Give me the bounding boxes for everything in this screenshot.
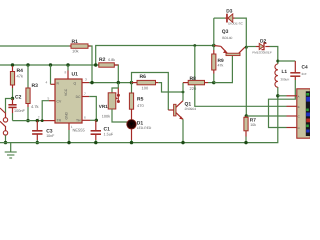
svg-text:2: 2: [38, 115, 40, 119]
button pin circle 1: [3, 118, 7, 122]
wire pin C: [246, 115, 286, 117]
resistor R9: [212, 46, 216, 83]
svg-text:R2: R2: [99, 57, 106, 63]
wire VCC top rail-1b y=45.5: [96, 46, 214, 66]
transistor Q1 base bar: [174, 104, 176, 116]
U1 pin number 5: [48, 96, 50, 100]
wire C4 top: [278, 61, 296, 72]
wire VR1 bottom to D1 line: [112, 109, 132, 122]
label C1: [104, 126, 114, 136]
transistor Q1 collector: [176, 92, 183, 107]
label R4: [17, 68, 24, 79]
junction C3-TR: [36, 119, 39, 122]
wire rail-1b down to module pin B: [195, 46, 287, 107]
module pin stub A: [287, 95, 297, 97]
svg-text:Q3: Q3: [222, 29, 229, 35]
wire R2 right lead down to node B: [114, 65, 118, 83]
svg-text:10k: 10k: [250, 123, 256, 127]
label R9: [218, 58, 224, 68]
svg-text:C2: C2: [15, 94, 22, 100]
wire C4 bottom to pin D: [269, 80, 296, 128]
label D2: [252, 38, 272, 54]
button/connector pin stubs (cut off at edge): [0, 108, 6, 131]
svg-text:6: 6: [84, 116, 86, 120]
wire R1 output to node Q (down at x=92): [89, 46, 93, 82]
svg-text:R5: R5: [137, 96, 144, 102]
svg-text:U1: U1: [72, 72, 79, 78]
transistor Q1 base lead: [168, 109, 173, 111]
transistor Q3 base bar: [226, 53, 240, 55]
resistor R2: [99, 63, 119, 67]
svg-text:3: 3: [85, 78, 87, 82]
junction R3-TR line: [26, 119, 29, 122]
wire VCC rail-2 y=65: [0, 64, 99, 66]
wire button feed: [6, 99, 13, 113]
node X junction (R4/C2/button): [11, 97, 14, 100]
node A junction (R1/Q out): [90, 81, 93, 84]
svg-text:100: 100: [142, 85, 149, 90]
svg-text:PMEG3050EP: PMEG3050EP: [252, 50, 272, 54]
resistor R3: [26, 65, 30, 121]
svg-text:A: A: [298, 94, 300, 98]
U1 pin number 4: [46, 81, 48, 85]
diode D3 feed wire: [214, 18, 226, 45]
wire TR line y=120.6: [13, 120, 56, 122]
U1 pin 1 GND stub: [69, 123, 73, 143]
capacitor C3: [32, 121, 42, 143]
svg-text:L1: L1: [282, 69, 288, 75]
label R6: [140, 74, 149, 90]
U1 pin 4 R stub: [51, 65, 56, 84]
button pin circle 2: [3, 131, 7, 135]
module pin stub B: [287, 105, 297, 107]
svg-text:R6: R6: [140, 74, 147, 80]
label C2: [14, 94, 25, 113]
label R3: [31, 83, 39, 109]
inductor L1: [275, 64, 278, 87]
capacitor C4: [290, 73, 300, 80]
svg-text:4: 4: [46, 81, 48, 85]
resistor R1: [70, 44, 91, 48]
svg-text:C1: C1: [104, 126, 111, 132]
wire node B to VR1 wiper: [117, 83, 119, 95]
junction GND-rail: [67, 141, 70, 144]
svg-text:2N3904: 2N3904: [185, 107, 197, 111]
capacitor C2: [8, 99, 16, 121]
wire base net to Q3: [214, 56, 233, 83]
module pin stub D: [287, 127, 297, 129]
module display: [306, 91, 310, 136]
junction rail-2 R2/rail-1b: [94, 63, 97, 66]
label Q1: [185, 102, 197, 111]
svg-text:7: 7: [84, 92, 86, 96]
label D3: [226, 9, 243, 26]
label R5: [137, 96, 144, 108]
junction collector/D2 anode: [245, 46, 248, 49]
svg-text:8: 8: [65, 71, 67, 75]
wire 555 output midline y=82.6: [89, 82, 132, 84]
svg-text:VR1: VR1: [99, 104, 108, 109]
U1 pin 7 DC stub: [82, 92, 89, 97]
transistor Q3 collector: [239, 47, 247, 53]
label C4: [302, 64, 308, 76]
module pin stub C: [287, 115, 297, 117]
junction C3-ground: [36, 141, 39, 144]
junction rail-1b R9/D3/Q3 emitter: [212, 44, 215, 47]
junction rail-2 R3: [26, 63, 29, 66]
junction R8/R9/Q3 base: [212, 81, 215, 84]
junction rail-2 pin4: [49, 63, 52, 66]
trimmer VR1 body: [108, 93, 116, 109]
svg-text:R1: R1: [72, 39, 79, 45]
diode D3: [226, 14, 234, 23]
junction TH-C1: [95, 119, 98, 122]
svg-text:D3: D3: [226, 9, 232, 15]
node B junction (R2/VR1): [117, 81, 120, 84]
junction rail-1b pin B branch: [193, 44, 196, 47]
svg-text:100nF: 100nF: [14, 109, 25, 113]
svg-text:CV: CV: [57, 99, 62, 103]
svg-text:470: 470: [137, 103, 144, 108]
label Q3: [222, 29, 233, 40]
svg-text:10k: 10k: [72, 48, 78, 53]
svg-text:D2: D2: [260, 38, 266, 44]
resistor R8: [183, 80, 214, 92]
svg-text:GND: GND: [65, 111, 69, 119]
svg-text:300uH: 300uH: [281, 77, 290, 81]
svg-text:TH: TH: [76, 119, 81, 123]
svg-text:R3: R3: [32, 83, 39, 89]
svg-text:R8: R8: [190, 76, 197, 82]
wire pin A: [278, 95, 287, 97]
svg-text:Q: Q: [74, 82, 77, 86]
U1 pin 2 TR stub: [38, 115, 40, 119]
led D1: [127, 112, 136, 143]
junction L1 top / C4 tap: [276, 60, 279, 63]
label R1: [72, 39, 79, 54]
U1 pin 6 TH stub: [82, 116, 90, 121]
svg-text:BD140: BD140: [222, 36, 232, 40]
svg-text:B: B: [298, 105, 300, 109]
U1 pin 8 VCC stub: [67, 65, 69, 79]
label C3: [46, 129, 55, 139]
wire button to ground: [5, 135, 7, 142]
svg-text:6.8k: 6.8k: [108, 58, 115, 62]
capacitor C1: [90, 120, 101, 142]
U1 inside labels: [57, 82, 82, 123]
svg-text:C4: C4: [302, 64, 308, 70]
junction button-ground: [4, 141, 7, 144]
op-amp U1 NE555 body: [55, 79, 82, 123]
module pin letters: [298, 94, 300, 130]
junction C1-ground: [94, 141, 97, 144]
svg-text:5: 5: [48, 96, 50, 100]
diode D2 anode wire: [246, 46, 259, 48]
junction L1 bottom / pin A: [276, 94, 279, 97]
svg-text:LED-RED: LED-RED: [137, 126, 152, 130]
svg-text:10nF: 10nF: [46, 134, 55, 138]
U1 pin 3 Q stub: [82, 78, 89, 83]
wire R1 input rail y=46: [0, 45, 70, 47]
junction rail-2 VCC pin8: [66, 63, 69, 66]
svg-text:100k: 100k: [102, 115, 110, 119]
wire node C up/over to Q1 base: [132, 73, 169, 111]
wire R6 right to collector node: [158, 83, 183, 92]
svg-text:NE555: NE555: [73, 128, 86, 133]
svg-text:DIODE-SC: DIODE-SC: [228, 22, 244, 26]
label R7: [250, 117, 256, 127]
junction R7-ground: [244, 141, 247, 144]
label L1: [281, 69, 290, 82]
resistor R7: [244, 116, 248, 143]
label R2: [99, 57, 115, 63]
ground symbol: [5, 143, 17, 158]
wire CV to TR line: [42, 101, 49, 121]
resistor R6: [132, 80, 159, 84]
wire DC to TH join: [89, 97, 96, 121]
svg-text:TR: TR: [57, 119, 62, 123]
junction collector node: [182, 91, 185, 94]
diode D2: [259, 43, 269, 49]
label R8: [190, 76, 197, 91]
wire node D down to R7: [245, 47, 247, 116]
label D1: [137, 120, 152, 130]
wire D3 to node D (x=246.3): [235, 18, 247, 47]
svg-text:220: 220: [190, 86, 197, 91]
module body: [297, 89, 311, 138]
svg-text:DC: DC: [76, 95, 81, 99]
transistor Q1 emitter with arrow: [176, 113, 183, 143]
svg-text:47k: 47k: [218, 63, 224, 67]
svg-text:1: 1: [71, 125, 73, 129]
junction Q1 emitter ground: [181, 141, 184, 144]
junction R7 / pin C: [245, 114, 248, 117]
node C junction (R5/R6/base feed): [130, 81, 133, 84]
svg-text:4.7k: 4.7k: [31, 104, 39, 109]
resistor R4: [10, 66, 14, 99]
svg-text:47k: 47k: [17, 74, 23, 79]
svg-text:C: C: [298, 115, 300, 119]
resistor R5: [129, 83, 133, 112]
junction rail-2 R4: [11, 63, 14, 66]
label NE555: [73, 128, 86, 133]
svg-text:2nF: 2nF: [302, 72, 307, 76]
label U1: [72, 72, 79, 78]
wire D2 cathode to L1 top: [270, 47, 278, 65]
wire ground rail with L1 riser: [0, 87, 278, 143]
svg-text:D: D: [298, 126, 300, 130]
U1 pin 5 CV stub: [49, 100, 55, 102]
wire node B to VR1 top: [112, 88, 118, 93]
label VR1: [99, 104, 110, 119]
U1 pin number 8: [65, 71, 67, 75]
junction CV-TR: [41, 119, 44, 122]
svg-text:VCC: VCC: [64, 88, 68, 96]
transistor Q3 emitter with arrow: [214, 46, 227, 54]
VR1 wiper arrow: [116, 94, 120, 103]
junction D1-ground: [130, 141, 133, 144]
svg-text:1.5uF: 1.5uF: [104, 133, 114, 137]
